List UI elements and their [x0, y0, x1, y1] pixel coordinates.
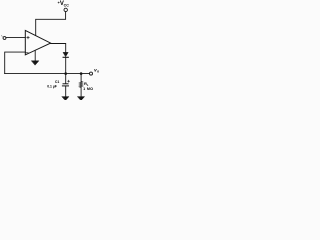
ground (resistor) [78, 97, 85, 101]
label C1 value [47, 80, 59, 88]
wire: feedback from rail to inverting input [5, 52, 26, 74]
node: resistor junction [80, 72, 83, 75]
capacitor C1 [63, 83, 68, 85]
wire: VCC power pin [36, 12, 66, 36]
node: diode/capacitor junction [64, 72, 67, 75]
svg-text:C1: C1 [55, 80, 60, 84]
ground (op-amp) [32, 61, 39, 65]
wire: resistor to ground [80, 87, 82, 96]
output terminal [90, 72, 93, 75]
wire: junction to capacitor [65, 74, 67, 84]
resistor RL [80, 81, 83, 87]
label +VCC [58, 0, 70, 7]
+VCC terminal [64, 8, 67, 11]
wire: diode cathode to rail [65, 58, 67, 74]
svg-text:o: o [97, 69, 99, 73]
svg-text:0.1 µF: 0.1 µF [47, 85, 57, 89]
input label remnant [1, 35, 4, 36]
wire: bottom rail [5, 73, 90, 75]
wire: ground pin of op-amp [34, 50, 36, 61]
svg-text:CC: CC [64, 4, 70, 8]
label vo [94, 67, 99, 73]
label RL value [83, 81, 93, 91]
wire: junction to resistor [80, 74, 82, 82]
diode D1 [63, 52, 68, 56]
wire: input to op-amp noninverting input [6, 37, 25, 39]
wire: op-amp output to diode [51, 44, 66, 53]
ground (capacitor) [62, 97, 69, 101]
svg-text:1 MΩ: 1 MΩ [83, 87, 93, 91]
wire: capacitor to ground [65, 86, 67, 97]
op-amp U1 [25, 30, 50, 55]
input terminal (left) [3, 37, 6, 40]
capacitor polarity + [68, 80, 70, 82]
op-amp + marking [27, 36, 29, 38]
op-amp - marking [26, 52, 28, 54]
